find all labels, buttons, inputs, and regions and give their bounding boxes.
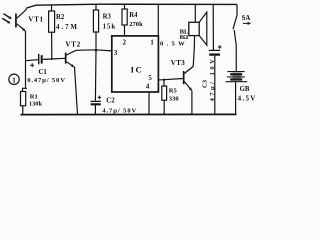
switch SA bbox=[233, 4, 237, 71]
svg-text:4.5V: 4.5V bbox=[238, 94, 257, 102]
label C2 value bbox=[102, 97, 137, 114]
svg-text:2: 2 bbox=[123, 40, 127, 47]
wire C1 node down to R1 bbox=[22, 61, 27, 92]
label R1 value bbox=[29, 94, 42, 108]
label R5 value bbox=[169, 88, 180, 103]
wire VT2 collector to IC pin 3 bbox=[76, 50, 112, 51]
svg-text:0.5W: 0.5W bbox=[160, 40, 188, 47]
svg-text:R3: R3 bbox=[103, 14, 112, 21]
label C1 value bbox=[27, 69, 66, 84]
wire IC pin 5 to VT3 base bbox=[158, 79, 183, 81]
svg-text:4.7M: 4.7M bbox=[56, 24, 79, 31]
svg-text:330: 330 bbox=[169, 96, 180, 103]
resistor R5 bbox=[162, 80, 167, 115]
svg-text:15k: 15k bbox=[103, 24, 117, 31]
svg-text:3: 3 bbox=[114, 50, 118, 57]
pin 3 bbox=[114, 50, 118, 57]
label VT1 bbox=[28, 16, 43, 24]
capacitor C2 bbox=[91, 51, 102, 115]
svg-text:130k: 130k bbox=[29, 101, 42, 108]
transistor VT1 bbox=[2, 8, 26, 31]
pin 5 bbox=[148, 75, 152, 82]
svg-text:C2: C2 bbox=[106, 97, 115, 104]
wire bottom ground rail bbox=[21, 113, 237, 115]
capacitor C1 bbox=[26, 54, 66, 67]
label R4 value bbox=[129, 12, 143, 28]
svg-text:R4: R4 bbox=[129, 12, 138, 19]
svg-text:5: 5 bbox=[148, 75, 152, 82]
svg-text:4: 4 bbox=[146, 84, 150, 91]
svg-text:4.7μ/ 50V: 4.7μ/ 50V bbox=[102, 107, 137, 114]
resistor R4 bbox=[122, 4, 127, 36]
wire top supply rail bbox=[27, 4, 238, 8]
svg-text:0.47μ/ 50V: 0.47μ/ 50V bbox=[27, 77, 66, 84]
svg-text:VT1: VT1 bbox=[28, 16, 43, 24]
wire IC pin 4 to ground rail bbox=[148, 92, 150, 115]
svg-text:R1: R1 bbox=[30, 94, 38, 101]
resistor R1 bbox=[21, 92, 26, 115]
label R3 value bbox=[103, 14, 117, 31]
wire VT1 emitter to C1 node bbox=[25, 31, 27, 61]
pin 1 bbox=[150, 40, 154, 47]
svg-text:270k: 270k bbox=[129, 21, 143, 28]
label C3 value rotated bbox=[202, 57, 216, 102]
label GB value bbox=[238, 86, 257, 103]
pin 4 bbox=[146, 84, 150, 91]
svg-text:VT2: VT2 bbox=[65, 41, 80, 49]
transistor VT3 bbox=[183, 36, 195, 115]
label BL value bbox=[160, 28, 189, 47]
label VT3 bbox=[171, 59, 186, 67]
speaker BL bbox=[189, 5, 207, 46]
battery GB bbox=[226, 72, 248, 115]
svg-text:1: 1 bbox=[12, 76, 16, 84]
resistor R2 bbox=[49, 5, 55, 60]
svg-text:C3: C3 bbox=[202, 79, 209, 88]
wire IC pin 1 to rail bbox=[157, 5, 159, 36]
label SA bbox=[242, 15, 251, 25]
svg-text:C1: C1 bbox=[39, 69, 48, 76]
label VT2 bbox=[65, 41, 80, 49]
svg-text:1: 1 bbox=[150, 40, 154, 47]
svg-text:47μ/ 10V: 47μ/ 10V bbox=[209, 57, 216, 102]
pin 2 bbox=[123, 40, 127, 47]
svg-text:SA: SA bbox=[242, 15, 251, 22]
op-amp U1 music IC box bbox=[112, 36, 159, 92]
svg-text:R5: R5 bbox=[169, 88, 178, 95]
svg-text:GB: GB bbox=[240, 86, 250, 93]
resistor R3 bbox=[93, 5, 98, 52]
capacitor C3 bbox=[209, 5, 222, 115]
svg-text:VT3: VT3 bbox=[171, 59, 186, 67]
svg-text:IC: IC bbox=[131, 64, 144, 74]
node terminal circle 1 bbox=[9, 74, 19, 84]
svg-text:R2: R2 bbox=[56, 14, 65, 21]
transistor VT2 bbox=[65, 50, 78, 114]
label R2 value bbox=[56, 14, 79, 31]
